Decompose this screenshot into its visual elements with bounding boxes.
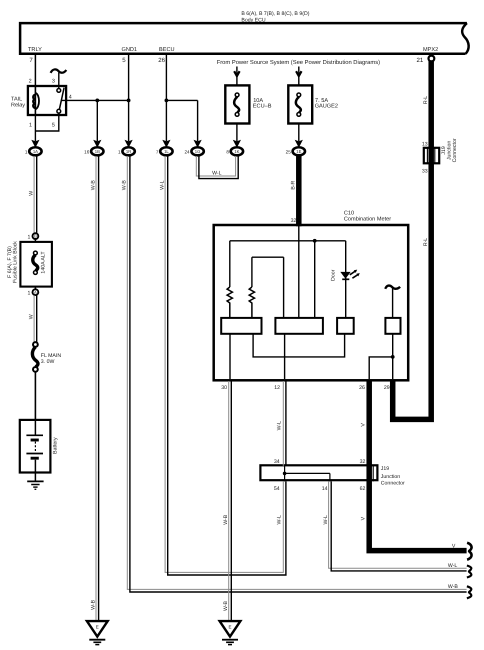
svg-text:J19: J19 bbox=[381, 466, 389, 472]
svg-text:16: 16 bbox=[84, 150, 90, 155]
svg-text:Connector: Connector bbox=[452, 138, 458, 162]
svg-text:32: 32 bbox=[291, 218, 297, 224]
svg-text:W-B: W-B bbox=[448, 584, 459, 590]
svg-text:30: 30 bbox=[221, 385, 227, 391]
svg-text:Battery: Battery bbox=[52, 437, 58, 454]
svg-text:E: E bbox=[228, 625, 231, 630]
svg-text:2: 2 bbox=[29, 79, 32, 85]
svg-text:MPX2: MPX2 bbox=[423, 47, 438, 53]
svg-text:1: 1 bbox=[118, 150, 121, 155]
svg-text:Connector: Connector bbox=[381, 481, 405, 487]
svg-text:34: 34 bbox=[274, 459, 280, 465]
svg-text:62: 62 bbox=[360, 486, 366, 492]
svg-text:7: 7 bbox=[156, 150, 159, 155]
svg-text:1R: 1R bbox=[126, 149, 131, 154]
svg-text:5: 5 bbox=[52, 122, 55, 128]
svg-text:TAIL: TAIL bbox=[11, 96, 22, 102]
svg-text:24: 24 bbox=[184, 150, 190, 155]
svg-text:26: 26 bbox=[158, 57, 165, 64]
svg-text:21: 21 bbox=[417, 57, 424, 64]
svg-text:W-L: W-L bbox=[323, 515, 329, 525]
svg-text:W-B: W-B bbox=[223, 600, 229, 611]
svg-text:1: 1 bbox=[28, 290, 31, 296]
svg-text:14: 14 bbox=[322, 486, 328, 492]
svg-text:3: 3 bbox=[52, 79, 55, 85]
svg-text:12: 12 bbox=[274, 385, 280, 391]
svg-text:1G: 1G bbox=[195, 149, 201, 154]
svg-text:W-L: W-L bbox=[277, 515, 283, 525]
svg-text:1L: 1L bbox=[164, 149, 169, 154]
svg-text:W-B: W-B bbox=[122, 180, 128, 191]
svg-text:3. 0W: 3. 0W bbox=[41, 359, 55, 365]
svg-text:W-L: W-L bbox=[277, 421, 283, 431]
svg-text:4: 4 bbox=[69, 95, 72, 101]
svg-text:W-B: W-B bbox=[90, 599, 96, 610]
svg-text:32: 32 bbox=[360, 459, 366, 465]
svg-text:V: V bbox=[452, 544, 456, 550]
svg-text:ECU–B: ECU–B bbox=[253, 103, 272, 109]
svg-text:GAUGE2: GAUGE2 bbox=[315, 103, 338, 109]
svg-text:54: 54 bbox=[274, 486, 280, 492]
svg-text:1K: 1K bbox=[234, 149, 239, 154]
svg-text:13: 13 bbox=[422, 141, 428, 147]
svg-text:TRLY: TRLY bbox=[28, 47, 42, 53]
svg-text:8: 8 bbox=[226, 150, 229, 155]
svg-text:Fusible Link Block: Fusible Link Block bbox=[13, 241, 19, 283]
svg-text:V: V bbox=[361, 423, 367, 427]
svg-text:W-L: W-L bbox=[212, 170, 222, 176]
svg-text:W-B: W-B bbox=[90, 180, 96, 191]
svg-text:1: 1 bbox=[28, 234, 31, 240]
svg-text:Junction: Junction bbox=[381, 474, 400, 480]
svg-text:1: 1 bbox=[29, 122, 32, 128]
svg-text:W-B: W-B bbox=[223, 514, 229, 525]
svg-text:140A ALT: 140A ALT bbox=[41, 251, 47, 274]
svg-text:B 6(A), B 7(B), B 8(C), B 9(D): B 6(A), B 7(B), B 8(C), B 9(D) bbox=[241, 11, 309, 17]
svg-text:1E: 1E bbox=[296, 149, 301, 154]
svg-text:E: E bbox=[96, 625, 99, 630]
svg-text:A: A bbox=[34, 290, 37, 295]
svg-text:1B: 1B bbox=[95, 149, 100, 154]
svg-text:29: 29 bbox=[384, 385, 390, 391]
svg-text:W-L: W-L bbox=[159, 180, 165, 190]
svg-text:Body ECU: Body ECU bbox=[241, 17, 265, 23]
svg-text:From Power Source System (See: From Power Source System (See Power Dist… bbox=[217, 59, 380, 66]
svg-text:25: 25 bbox=[286, 150, 292, 155]
svg-text:B-R: B-R bbox=[291, 180, 297, 189]
svg-text:Door: Door bbox=[330, 269, 336, 281]
svg-text:Relay: Relay bbox=[11, 103, 25, 109]
svg-text:GND1: GND1 bbox=[122, 47, 138, 53]
svg-text:W: W bbox=[28, 314, 34, 319]
svg-text:26: 26 bbox=[359, 385, 365, 391]
svg-text:B: B bbox=[34, 234, 37, 239]
svg-text:R-L: R-L bbox=[423, 96, 429, 104]
svg-text:R-L: R-L bbox=[423, 238, 429, 246]
svg-text:33: 33 bbox=[422, 169, 428, 175]
svg-text:Combination Meter: Combination Meter bbox=[344, 215, 391, 222]
svg-text:1: 1 bbox=[25, 150, 28, 155]
svg-text:V: V bbox=[361, 516, 367, 520]
svg-text:W-L: W-L bbox=[448, 563, 458, 569]
svg-text:BECU: BECU bbox=[159, 47, 175, 53]
svg-text:W: W bbox=[28, 191, 34, 196]
svg-text:1A: 1A bbox=[33, 149, 38, 154]
